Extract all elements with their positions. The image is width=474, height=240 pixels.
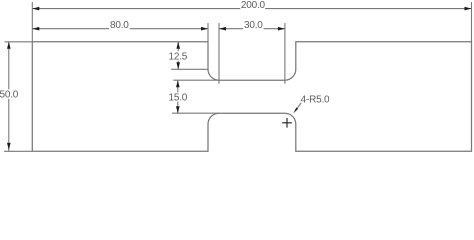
svg-text:200.0: 200.0 — [241, 0, 266, 11]
dim 200.0 extension line left — [31, 2, 33, 42]
dim 12.5 arrow up — [176, 42, 180, 49]
dim 15.0 line lower segment — [177, 102, 179, 114]
dim 80.0 line left segment — [32, 28, 109, 30]
dim 50.0 line upper segment — [8, 42, 10, 90]
dim 50.0 arrow down — [7, 143, 11, 150]
dim 15.0 extension line top (slot bottom extended) — [173, 79, 219, 81]
dim 15.0 line upper segment — [177, 80, 179, 92]
svg-text:4-R5.0: 4-R5.0 — [301, 94, 330, 105]
leader 4-R5.0 arrowhead — [293, 108, 298, 114]
part outline — [32, 42, 471, 152]
leader 4-R5.0 — [296, 103, 302, 111]
dim 50.0 extension line bottom — [4, 150, 32, 152]
dim 30.0 arrow left — [219, 27, 226, 31]
dim 200.0 line left segment — [32, 8, 240, 10]
svg-text:12.5: 12.5 — [169, 52, 188, 63]
svg-text:30.0: 30.0 — [244, 20, 263, 31]
dim 50.0 line lower segment — [8, 99, 10, 152]
center mark of notch fillet — [282, 118, 292, 128]
dim 80.0 arrow right — [201, 27, 208, 31]
dim 12.5 line upper segment — [177, 42, 179, 51]
dim 15.0 arrow down — [176, 106, 180, 113]
dim 30.0 extension line left (through slot to tangent) — [218, 23, 220, 84]
dim 12.5 line lower segment — [177, 61, 179, 70]
dim 200.0 arrow left — [32, 7, 39, 11]
dim 30.0 line right segment — [264, 28, 285, 30]
svg-text:80.0: 80.0 — [110, 20, 129, 31]
svg-text:15.0: 15.0 — [169, 92, 188, 103]
dim 80.0 line right segment — [130, 28, 208, 30]
dim 15.0 arrow up — [176, 80, 180, 87]
dim 200.0 extension line right — [471, 2, 473, 42]
dim 12.5 arrow down — [176, 62, 180, 69]
dim 30.0 line left segment — [219, 28, 243, 30]
dim 50.0 extension line top — [5, 41, 33, 43]
svg-text:50.0: 50.0 — [0, 90, 19, 101]
dim 200.0 line right segment — [265, 8, 471, 10]
dim 80.0 arrow left — [32, 27, 39, 31]
dim 12.5 extension line bottom (slot fillet tangent) — [171, 68, 208, 70]
dim 30.0 arrow right — [278, 27, 285, 31]
dim 200.0 arrow right — [465, 7, 472, 11]
dim 50.0 arrow up — [7, 42, 11, 49]
dim 80.0 extension line (slot left wall, above top edge) — [207, 23, 209, 42]
dim 15.0 extension line bottom (notch top extended) — [172, 112, 219, 114]
dim 30.0 extension line right (through slot to tangent) — [284, 23, 286, 84]
